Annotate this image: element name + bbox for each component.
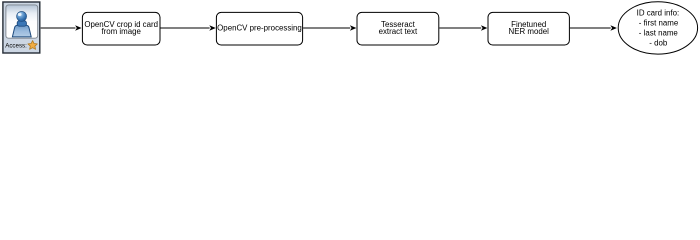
arrowhead into ellipse (610, 25, 617, 30)
svg-text:- last name: - last name (639, 28, 679, 37)
wire: box1 to box2 (161, 27, 210, 29)
box3: Tesseract extract text (357, 12, 439, 45)
ellipse: ID card info output (618, 2, 697, 54)
actor collar (17, 21, 26, 26)
wire: actor to box1 (41, 27, 76, 29)
svg-text:Access:: Access: (5, 43, 27, 50)
wire: box4 to ellipse (570, 27, 611, 29)
wire: box3 to box4 (439, 27, 481, 29)
box1: OpenCV crop id card from image (82, 12, 160, 45)
arrowhead into box1 (75, 25, 82, 30)
svg-text:OpenCV pre-processing: OpenCV pre-processing (217, 23, 302, 32)
actor inner image panel (6, 5, 38, 38)
svg-text:extract text: extract text (379, 27, 418, 36)
actor node "Access" (user icon with label) (3, 2, 40, 53)
svg-text:- dob: - dob (649, 38, 668, 47)
box2: OpenCV pre-processing (216, 12, 302, 45)
actor outer frame (3, 2, 40, 53)
svg-text:NER model: NER model (509, 27, 550, 36)
actor torso (12, 25, 31, 37)
svg-text:from image: from image (101, 27, 141, 36)
svg-text:- first name: - first name (639, 18, 679, 27)
access star icon (28, 41, 37, 50)
arrowhead into box4 (481, 25, 488, 30)
arrowhead into box2 (209, 25, 216, 30)
wire: box2 to box3 (303, 27, 350, 29)
actor head highlight (18, 13, 22, 16)
box4: Finetuned NER model (488, 12, 569, 45)
arrowhead into box3 (350, 25, 357, 30)
svg-text:ID card info:: ID card info: (637, 9, 680, 18)
actor head (17, 11, 27, 21)
